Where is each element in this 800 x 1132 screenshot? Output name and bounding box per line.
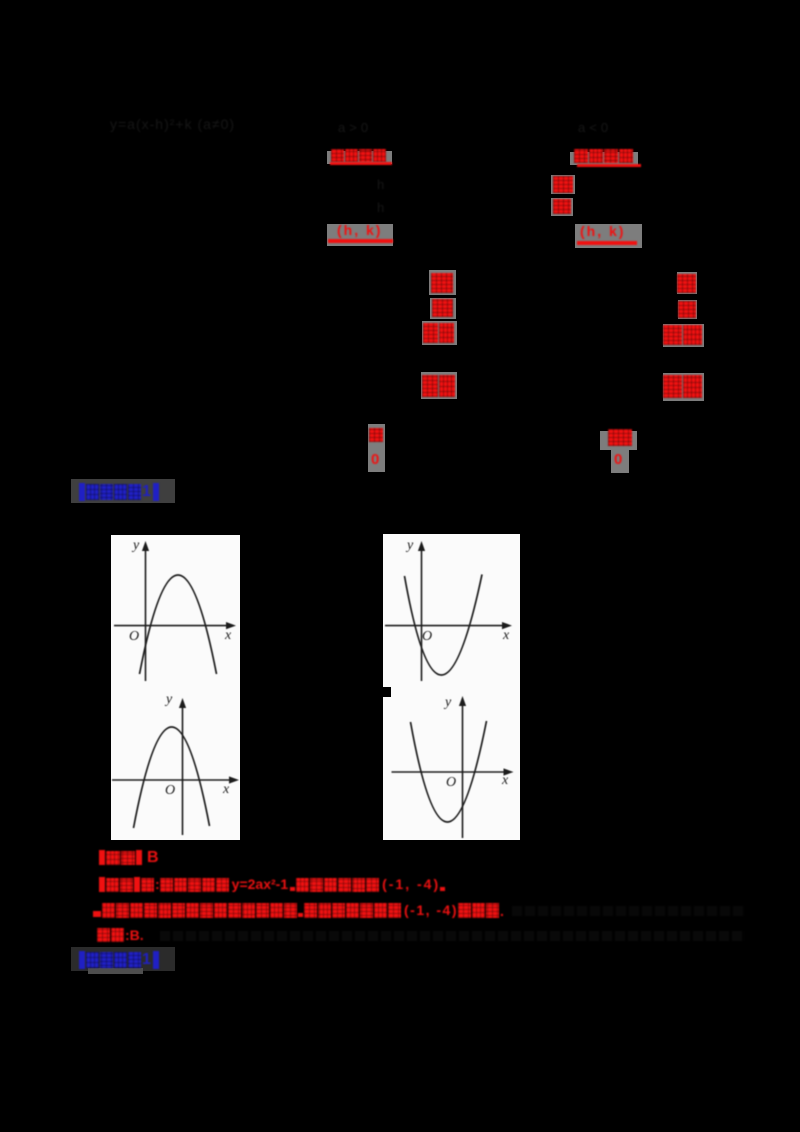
svg-text:O: O <box>446 775 456 790</box>
svg-text:y: y <box>131 538 140 553</box>
svg-text:x: x <box>224 628 232 643</box>
svg-text:x: x <box>222 782 230 797</box>
svg-text:O: O <box>129 629 139 644</box>
svg-text:O: O <box>165 783 175 798</box>
svg-text:O: O <box>422 629 432 644</box>
svg-text:x: x <box>502 628 510 643</box>
svg-text:y: y <box>405 538 414 553</box>
svg-text:y: y <box>443 695 452 710</box>
svg-text:x: x <box>501 773 509 788</box>
svg-text:y: y <box>164 692 173 707</box>
